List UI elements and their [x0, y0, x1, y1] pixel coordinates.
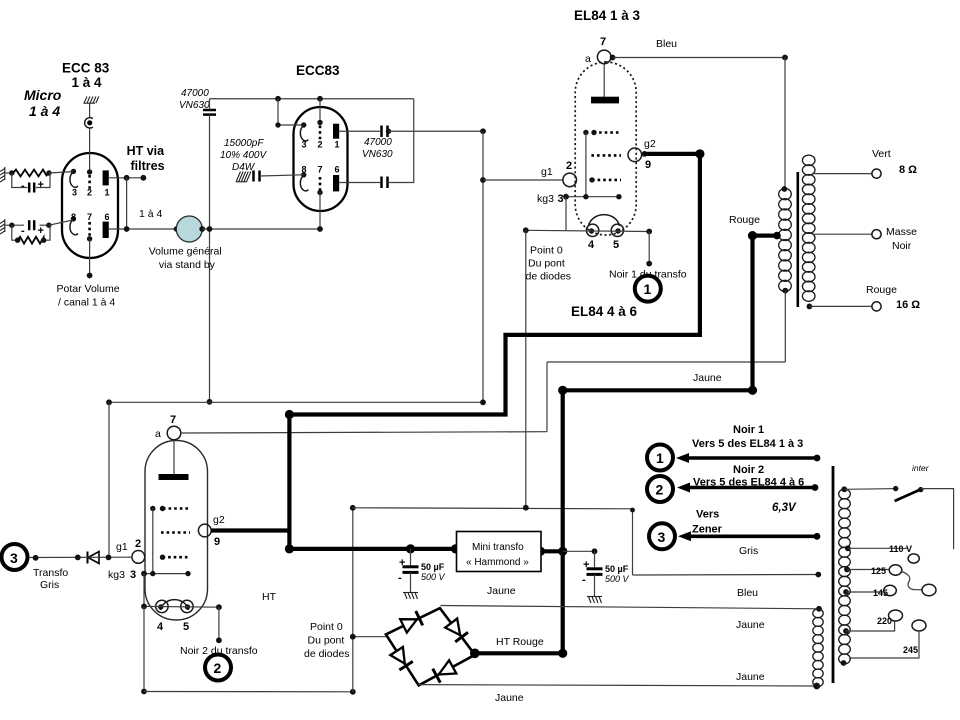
wire mini transfo right stub: [541, 549, 563, 553]
svg-text:-: -: [21, 225, 25, 237]
wire C2 to pin8: [260, 175, 304, 176]
node 50uF number2 tap: [592, 548, 598, 554]
wire C4 to feedback corner: [388, 99, 414, 183]
wire T2 top to switch: [844, 488, 896, 491]
label + 50uF 500V number1: [398, 557, 446, 584]
wire pin5 to transfo noir 2: [218, 607, 220, 640]
svg-text:9: 9: [214, 536, 220, 548]
grid row 1 V2 (dotted): [163, 507, 190, 510]
wire to g1 EL84 V1: [483, 179, 563, 181]
tube EL84 V1 envelope (dotted): [575, 62, 636, 235]
svg-text:Jaune: Jaune: [693, 372, 722, 384]
svg-text:10% 400V: 10% 400V: [220, 150, 267, 161]
anode pin 1 U2: [333, 124, 339, 139]
node 50uF number1 tap: [406, 544, 415, 553]
diode D1 (top-left arm): [400, 611, 423, 633]
svg-text:2: 2: [566, 160, 572, 172]
diode bridge outline: [386, 608, 475, 685]
svg-text:g1: g1: [116, 541, 128, 553]
node pin7 bottom U1: [87, 236, 92, 241]
node anode V1: [610, 55, 616, 61]
svg-text:Jaune: Jaune: [487, 585, 516, 597]
node y402 right: [480, 399, 486, 405]
capacitor input 1: [29, 183, 34, 193]
wire pin1 to C3: [339, 130, 380, 132]
svg-text:Rouge: Rouge: [729, 214, 760, 226]
node cathode right V1: [646, 229, 652, 235]
svg-text:Zener: Zener: [692, 524, 723, 536]
node cathode left V1: [523, 227, 529, 233]
wire vert tap: [812, 173, 872, 175]
wire gnd to C in2: [5, 224, 24, 226]
terminal circle 3 right: [649, 523, 675, 549]
svg-text:1 à 4: 1 à 4: [29, 103, 60, 119]
wire tap 125: [847, 569, 889, 571]
node at volume left: [124, 226, 130, 232]
node noir1 stub end: [646, 261, 652, 267]
node volume tap on x209: [207, 226, 213, 232]
wire C3 to vertical node: [389, 130, 484, 132]
svg-text:3: 3: [10, 550, 18, 566]
wire rail to pin2: [319, 99, 321, 123]
wire circle3 to g1 V2: [29, 556, 132, 558]
svg-text:Transfo: Transfo: [33, 567, 68, 579]
node arrow3 end: [814, 533, 821, 540]
wire vertical coupling x483: [482, 131, 484, 402]
capacitor C2 15000pF: [254, 171, 260, 182]
wire jaune bridge bottom to filament: [419, 685, 817, 686]
node mini transfo left: [451, 544, 460, 553]
node pin4 V2: [158, 604, 163, 609]
wire switch to corner: [921, 489, 954, 550]
transformer T2 core: [832, 466, 835, 683]
node pin2 top U2: [317, 120, 322, 125]
capacitor input 2: [29, 220, 34, 230]
wire gnd to R in1: [5, 172, 13, 174]
node in1 left: [9, 170, 14, 175]
node diode-g1 junction: [106, 555, 112, 561]
svg-text:Noir 1: Noir 1: [733, 424, 764, 436]
wire arrow noir 2: [682, 486, 815, 490]
node pin8 U1: [71, 216, 76, 221]
node gris 1: [33, 555, 39, 561]
svg-text:6: 6: [335, 165, 340, 175]
svg-text:Bleu: Bleu: [737, 587, 758, 599]
node HT via filtres end: [141, 175, 147, 181]
pin 5 circle V2: [181, 600, 193, 612]
label Potar Volume / canal 1 a 4: [57, 283, 120, 309]
grid pin 2 U1 (dotted): [88, 175, 91, 190]
label mini transfo: [466, 542, 529, 568]
anode plate V2: [159, 474, 189, 480]
svg-text:Vers: Vers: [696, 509, 719, 521]
g2 circle V1 pin 9: [628, 148, 642, 162]
node point0 bridge: [350, 634, 356, 640]
volume general node (teal): [176, 216, 202, 242]
anode pin 6 U2: [333, 175, 339, 191]
wire pin7 down to volume wire: [319, 193, 321, 230]
svg-text:Rouge: Rouge: [866, 284, 897, 296]
terminal oval plug: [922, 584, 936, 596]
label kg3 3 V1: [537, 193, 564, 205]
node g2 V1: [642, 151, 648, 157]
terminal masse noir: [872, 230, 881, 239]
diode D4 (bottom-right arm): [433, 660, 457, 682]
g1 circle V1 pin 2: [563, 173, 577, 187]
svg-text:2: 2: [87, 188, 92, 198]
svg-text:Volume général: Volume général: [149, 246, 222, 258]
svg-text:500 V: 500 V: [605, 574, 630, 584]
transformer T2 primary coil: [839, 489, 851, 664]
node pin2 top U1: [87, 169, 92, 174]
svg-text:4: 4: [588, 239, 595, 251]
anode pin 6 U1: [103, 222, 109, 238]
grid row 2 V2 (dotted): [161, 531, 190, 534]
svg-text:3: 3: [130, 569, 136, 581]
node kg3 left V1: [563, 194, 569, 200]
wire in1 to pin3: [49, 172, 73, 173]
node in2 left: [9, 223, 14, 228]
svg-text:+: +: [583, 559, 589, 571]
node pin3 U2: [301, 122, 306, 127]
wire 245 down-left: [849, 631, 919, 658]
wire Bleu V1 anode: [613, 57, 785, 59]
node y402 left: [106, 399, 112, 405]
node HT bus join: [558, 547, 567, 556]
node bottom left corner: [141, 689, 147, 695]
svg-text:2: 2: [656, 482, 664, 498]
tube ECC83 U2 envelope: [294, 107, 348, 211]
label Vers Zener: [692, 509, 723, 536]
grid pin 8 U2 (arc): [300, 175, 308, 191]
node grid3 V1: [589, 177, 594, 182]
ground input 1: [0, 167, 5, 182]
svg-text:-: -: [398, 572, 402, 584]
wire anode V2 y432: [181, 432, 547, 433]
node grid1 tie V2: [150, 506, 155, 511]
transformer T2 filament coil: [813, 609, 823, 687]
svg-text:Point 0: Point 0: [310, 621, 343, 633]
terminal circle 2 right: [647, 476, 673, 502]
node point0 x526: [523, 505, 529, 511]
svg-text:16 Ω: 16 Ω: [896, 299, 920, 311]
node kg3 right V2: [185, 571, 190, 576]
svg-text:5: 5: [613, 239, 619, 251]
capacitor 50uF number2: [587, 551, 603, 596]
wire pin1 to HT stub: [109, 177, 144, 179]
resistor input 2: [18, 237, 44, 244]
pin 7 circle V1: [597, 50, 611, 64]
wire masse tap: [813, 233, 872, 235]
g2 circle V2 pin 9: [198, 524, 211, 537]
svg-text:g1: g1: [541, 166, 553, 178]
transformer T1 core: [796, 172, 799, 307]
pin 7 circle V2: [167, 426, 181, 440]
wire in2 to pin8: [49, 220, 73, 225]
diode D5 (transfo gris): [88, 552, 100, 564]
node bottom right: [350, 689, 356, 695]
wire volume to ECC83 U2 pin7: [202, 228, 320, 230]
grid pin 3 U1 (arc): [70, 172, 78, 188]
terminal circle 1 right: [647, 445, 673, 471]
svg-text:5: 5: [183, 621, 189, 633]
node switch right: [918, 487, 923, 492]
wire bleu psu y575: [633, 574, 819, 577]
wire squiggle 125 to plug: [902, 572, 923, 590]
wire anode lead V2: [173, 440, 175, 474]
wire ground to jack: [89, 103, 91, 118]
svg-text:8 Ω: 8 Ω: [899, 164, 917, 176]
wire T1 primary bottom down: [784, 291, 786, 362]
svg-text:4: 4: [157, 621, 164, 633]
node at volume right: [199, 226, 205, 232]
node HT bus mid: [558, 386, 567, 395]
node HT via filtres junction: [124, 175, 130, 181]
terminal oval 220: [889, 610, 903, 621]
svg-text:Micro: Micro: [24, 87, 62, 103]
node rouge tap: [807, 304, 813, 310]
node g2 V2 bus join: [285, 544, 294, 553]
node pin5 V2: [185, 604, 190, 609]
node x209 bottom: [207, 399, 213, 405]
wire cathode V2 down: [143, 606, 145, 691]
svg-text:Vers 5 des EL84 1 à 3: Vers 5 des EL84 1 à 3: [692, 438, 803, 450]
svg-text:Du pont: Du pont: [308, 635, 345, 647]
svg-text:ECC 83: ECC 83: [62, 61, 110, 76]
svg-text:HT Rouge: HT Rouge: [496, 636, 544, 648]
node T2 primary bottom: [841, 660, 847, 666]
svg-text:EL84 1 à 3: EL84 1 à 3: [574, 8, 641, 23]
node rail pin2 branch: [317, 96, 323, 102]
svg-text:1: 1: [105, 188, 110, 198]
label kg3 3 V2: [108, 569, 136, 581]
wire tap 110V: [848, 547, 908, 549]
svg-text:a: a: [155, 428, 161, 440]
wire y362 to corner: [547, 361, 785, 363]
anode pin 1 U1: [103, 170, 109, 185]
grid pin 2 U2 (dotted): [319, 126, 322, 141]
node in2 right: [46, 223, 51, 228]
terminal oval 245: [912, 620, 926, 631]
terminal rouge 16ohm: [872, 302, 881, 311]
wire point0 drop x526: [525, 230, 527, 507]
svg-text:3: 3: [302, 140, 307, 150]
jack input circle: [85, 118, 93, 128]
wire HT top rail: [210, 98, 414, 100]
wire C to node in2: [40, 224, 50, 226]
svg-text:125: 125: [871, 566, 886, 576]
svg-text:50 µF: 50 µF: [605, 564, 629, 574]
terminal oval 145: [884, 585, 897, 595]
wire pin6 to volume node: [109, 228, 177, 230]
wire jack to pin 2: [89, 128, 91, 172]
svg-text:Du pont: Du pont: [528, 258, 565, 270]
node noir2 stub end: [216, 637, 222, 643]
node cathode right V2: [216, 604, 222, 610]
node T1 primary top: [782, 186, 788, 192]
loop wires input 1: [12, 173, 50, 188]
wire g2 bus from V1: [289, 154, 700, 549]
svg-text:+: +: [399, 557, 405, 569]
svg-text:+: +: [38, 225, 44, 237]
grid row 2 V1 (dotted): [591, 154, 621, 157]
svg-text:6,3V: 6,3V: [772, 502, 797, 514]
svg-text:2: 2: [135, 538, 141, 550]
svg-text:15000pF: 15000pF: [224, 138, 264, 149]
arrowhead noir 2: [677, 483, 690, 493]
grid row 3 V2 (dotted): [163, 556, 191, 559]
tap 125 node: [844, 567, 850, 573]
wire point0 vertical x353: [352, 508, 354, 692]
wire kg3 row V1: [566, 196, 619, 198]
grid pin 3 U2 (arc): [300, 125, 308, 141]
wire kg3 down to cathode wire V1: [565, 197, 567, 231]
svg-text:2: 2: [214, 660, 222, 676]
terminal circle 1 (noir 1): [635, 276, 661, 302]
transformer T1 secondary coil: [802, 155, 815, 301]
ground 50uF number2: [587, 597, 602, 604]
svg-text:Mini transfo: Mini transfo: [472, 542, 524, 553]
node coupling corner: [480, 128, 486, 134]
svg-text:kg3: kg3: [537, 193, 554, 205]
svg-text:7: 7: [87, 212, 92, 222]
node in1 right: [46, 170, 51, 175]
svg-text:3: 3: [558, 193, 564, 205]
svg-text:a: a: [585, 53, 591, 65]
switch inter blade: [895, 489, 922, 501]
ground C2: [236, 172, 251, 183]
svg-text:de diodes: de diodes: [526, 271, 572, 283]
grid row 3 V1 (dotted): [592, 179, 621, 182]
svg-text:245: 245: [903, 645, 918, 655]
node pin5 V1: [615, 228, 620, 233]
node pin4 V1: [589, 228, 594, 233]
svg-text:Masse: Masse: [886, 226, 917, 238]
ground input 2: [0, 219, 5, 234]
svg-text:Noir 2: Noir 2: [733, 464, 764, 476]
label 47000 VN630 C3: [362, 137, 393, 160]
svg-text:Jaune: Jaune: [495, 692, 524, 704]
svg-text:1 à 4: 1 à 4: [72, 75, 103, 90]
g1 circle V2 pin 2: [132, 551, 145, 564]
wire g2 V2 join: [211, 528, 289, 532]
svg-text:Gris: Gris: [739, 545, 758, 557]
wire arrow noir 1: [681, 456, 817, 460]
wire bleu down to primary top: [784, 58, 786, 190]
grid pin 7 U1 (dotted): [88, 222, 91, 237]
svg-text:Potar Volume: Potar Volume: [57, 283, 120, 295]
svg-text:inter: inter: [912, 463, 930, 473]
wire x109 down to diode wire: [108, 402, 110, 557]
node arrow1 end: [814, 455, 821, 462]
node kg3 right V1: [616, 194, 621, 199]
tube ECC83 U1 envelope: [62, 153, 118, 258]
svg-text:1 à 4: 1 à 4: [139, 208, 163, 220]
wire pin6 to C4: [339, 182, 380, 184]
node kg3 tie V1: [583, 194, 588, 199]
wire 50uF number2 branch: [563, 550, 595, 552]
svg-text:7: 7: [318, 165, 323, 175]
svg-text:7: 7: [600, 36, 606, 48]
svg-text:1: 1: [644, 281, 652, 297]
node switch left: [893, 486, 898, 491]
terminal circle 3 (transfo gris): [2, 544, 28, 570]
svg-text:-: -: [21, 180, 25, 192]
node T1 center tap coil side: [773, 232, 781, 240]
ground (input jack): [84, 97, 99, 104]
pin 4 circle V2: [156, 600, 168, 612]
svg-text:47000: 47000: [364, 137, 392, 148]
cathode hump V2: [161, 600, 189, 610]
wire cathode row V1: [526, 230, 649, 231]
svg-text:3: 3: [72, 188, 77, 198]
svg-text:1: 1: [335, 140, 340, 150]
ground 50uF number1: [403, 593, 418, 600]
node filament top: [816, 606, 822, 612]
wire T1 center tap (rouge): [753, 234, 778, 238]
svg-text:145: 145: [873, 588, 888, 598]
node grid3 V2: [160, 555, 165, 560]
svg-text:8: 8: [302, 165, 307, 175]
wire tap 145: [846, 591, 884, 593]
tube EL84 V2 envelope: [145, 441, 208, 621]
svg-text:110 V: 110 V: [889, 544, 912, 554]
node kg3 tie V2: [150, 571, 155, 576]
node cathode left V2: [141, 604, 147, 610]
label + 50uF 500V number2: [582, 559, 630, 586]
resistor input 1: [13, 170, 49, 177]
wire point0 horizontal y508: [353, 508, 633, 509]
svg-text:g2: g2: [644, 138, 656, 150]
label Point 0 du pont de diodes (bridge): [304, 621, 350, 660]
arrowhead gris 3: [678, 531, 691, 541]
node arrow2 end: [812, 484, 819, 491]
wire x547 down: [546, 362, 548, 432]
wire junction down to pin6 wire: [126, 178, 128, 229]
node T1 center tap left: [748, 231, 757, 240]
svg-text:de diodes: de diodes: [304, 648, 350, 660]
wire rail to pin3 elbow: [278, 99, 304, 125]
svg-text:1: 1: [656, 450, 664, 466]
node kg3 left V2: [141, 571, 147, 577]
node T2 primary top: [841, 486, 847, 492]
arrowhead noir 1: [676, 453, 689, 463]
capacitor 50uF number1: [403, 549, 419, 593]
tap 110V node: [845, 545, 851, 551]
node T1 primary bottom: [782, 288, 788, 294]
grid row 1 V1 (dotted): [594, 131, 622, 134]
wire anode lead V1: [603, 64, 605, 97]
label 15000pF 10% 400V D4W: [220, 138, 267, 173]
mini transfo box: [457, 532, 542, 572]
svg-text:-: -: [582, 574, 586, 586]
node y508 corner: [630, 508, 635, 513]
svg-text:g2: g2: [213, 514, 225, 526]
node pin7 bottom U2: [317, 190, 322, 195]
svg-text:Point 0: Point 0: [530, 245, 563, 257]
svg-text:7: 7: [170, 414, 176, 426]
svg-text:+: +: [38, 179, 44, 191]
terminal oval 110V: [908, 554, 919, 563]
wire grid tie V2: [152, 509, 154, 574]
svg-text:47000: 47000: [181, 88, 209, 99]
svg-text:Gris: Gris: [40, 579, 59, 591]
tap 220 node: [843, 628, 849, 634]
wire point0 to bridge: [353, 636, 386, 638]
terminal circle 2 (noir 2): [205, 655, 231, 681]
wire pin7 to potar stub: [89, 239, 91, 275]
node potar stub: [87, 273, 93, 279]
